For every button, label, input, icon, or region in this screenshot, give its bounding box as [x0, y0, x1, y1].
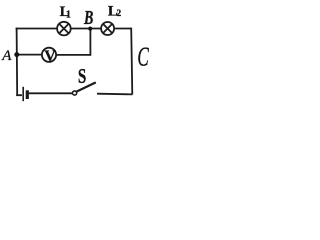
svg-text:A: A [1, 48, 12, 64]
svg-text:B: B [83, 7, 93, 29]
svg-text:V: V [44, 48, 56, 65]
svg-text:C: C [137, 41, 149, 71]
svg-text:2: 2 [117, 8, 122, 18]
svg-text:1: 1 [66, 10, 71, 21]
svg-text:S: S [78, 65, 86, 88]
